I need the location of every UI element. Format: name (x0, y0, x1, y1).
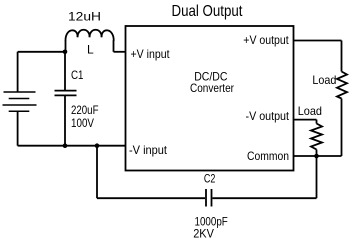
svg-text:+V input: +V input (131, 47, 171, 61)
svg-text:C2: C2 (204, 172, 216, 186)
svg-text:+V output: +V output (243, 33, 289, 47)
svg-text:Load: Load (312, 73, 336, 87)
svg-text:-V output: -V output (246, 109, 290, 123)
svg-text:Common: Common (247, 149, 289, 163)
svg-text:Dual Output: Dual Output (172, 3, 243, 20)
svg-text:220uF: 220uF (71, 103, 99, 117)
svg-text:-V input: -V input (129, 143, 168, 157)
svg-text:Converter: Converter (190, 81, 234, 95)
svg-text:12uH: 12uH (68, 10, 101, 24)
svg-text:2KV: 2KV (193, 226, 214, 240)
svg-text:Load: Load (298, 104, 322, 118)
svg-text:100V: 100V (71, 116, 94, 130)
svg-text:C1: C1 (71, 68, 84, 82)
svg-text:L: L (87, 43, 94, 57)
